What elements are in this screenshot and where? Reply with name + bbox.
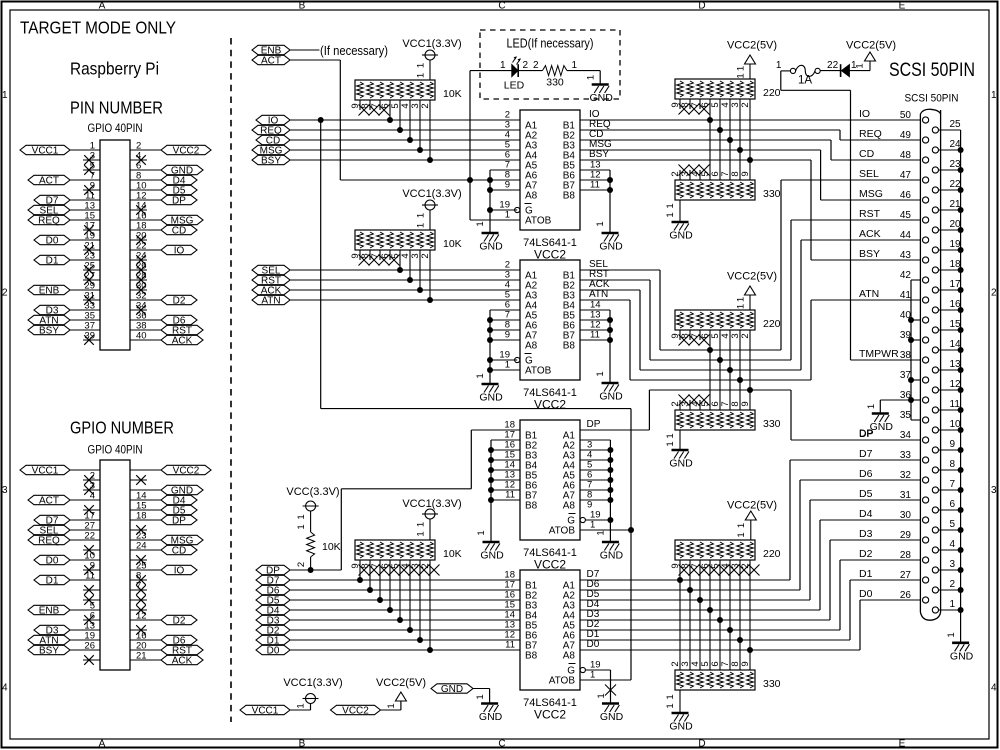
svg-text:9: 9 <box>950 439 956 450</box>
svg-text:IO: IO <box>174 565 185 576</box>
svg-text:1: 1 <box>596 693 607 698</box>
svg-text:1: 1 <box>296 514 307 519</box>
svg-text:1: 1 <box>505 210 510 221</box>
svg-text:BSY: BSY <box>589 149 609 160</box>
svg-text:GND: GND <box>669 721 693 733</box>
svg-text:1: 1 <box>476 530 487 535</box>
svg-text:1: 1 <box>595 371 606 376</box>
svg-text:ACT: ACT <box>39 175 59 186</box>
svg-text:32: 32 <box>900 470 912 481</box>
svg-text:2: 2 <box>740 102 751 107</box>
svg-text:1: 1 <box>416 213 427 218</box>
svg-text:1: 1 <box>416 223 427 228</box>
svg-text:REQ: REQ <box>38 215 60 226</box>
svg-text:9: 9 <box>505 330 510 341</box>
svg-text:PIN NUMBER: PIN NUMBER <box>70 98 163 118</box>
svg-text:LED(If necessary): LED(If necessary) <box>507 36 594 51</box>
svg-text:GPIO NUMBER: GPIO NUMBER <box>70 418 174 438</box>
svg-text:SCSI 50PIN: SCSI 50PIN <box>905 93 959 105</box>
svg-text:1: 1 <box>416 73 427 78</box>
svg-text:VCC2(5V): VCC2(5V) <box>727 500 777 512</box>
svg-text:VCC1: VCC1 <box>32 465 59 476</box>
svg-text:E: E <box>899 1 906 12</box>
svg-text:GPIO 40PIN: GPIO 40PIN <box>88 445 143 457</box>
svg-text:GND: GND <box>600 550 624 562</box>
svg-text:4: 4 <box>991 683 997 694</box>
svg-text:A8: A8 <box>525 191 538 202</box>
svg-text:21: 21 <box>136 651 147 662</box>
svg-text:27: 27 <box>900 570 912 581</box>
svg-text:CD: CD <box>172 225 186 236</box>
svg-text:1: 1 <box>665 212 676 217</box>
svg-text:ACT: ACT <box>39 495 59 506</box>
svg-text:9: 9 <box>740 661 751 666</box>
svg-text:D: D <box>698 1 705 12</box>
svg-text:2: 2 <box>420 103 431 108</box>
svg-text:TARGET MODE ONLY: TARGET MODE ONLY <box>20 18 176 38</box>
svg-text:D0: D0 <box>46 235 59 246</box>
svg-text:GND: GND <box>669 458 693 470</box>
svg-text:5: 5 <box>950 519 956 530</box>
svg-text:ATN: ATN <box>589 289 608 300</box>
svg-text:ATN: ATN <box>261 295 280 306</box>
svg-text:1: 1 <box>500 60 506 71</box>
svg-text:11: 11 <box>505 490 515 501</box>
svg-text:1: 1 <box>416 531 427 536</box>
svg-text:2: 2 <box>296 562 307 567</box>
svg-text:1: 1 <box>475 694 486 699</box>
svg-text:2: 2 <box>533 60 539 71</box>
svg-text:48: 48 <box>900 150 912 161</box>
svg-text:2: 2 <box>950 579 956 590</box>
svg-text:D1: D1 <box>46 575 59 586</box>
svg-text:VCC2: VCC2 <box>534 398 566 412</box>
svg-text:ENB: ENB <box>39 605 60 616</box>
svg-text:D0: D0 <box>267 645 280 656</box>
svg-text:BSY: BSY <box>39 645 59 656</box>
svg-text:1: 1 <box>2 90 8 101</box>
svg-text:1: 1 <box>736 66 747 71</box>
svg-text:220: 220 <box>763 548 781 560</box>
svg-text:11: 11 <box>590 180 600 191</box>
svg-text:40: 40 <box>136 331 147 342</box>
svg-text:GND: GND <box>441 684 463 695</box>
svg-text:1: 1 <box>416 522 427 527</box>
svg-text:6: 6 <box>950 499 956 510</box>
svg-text:220: 220 <box>763 318 781 330</box>
svg-text:D0: D0 <box>46 555 59 566</box>
svg-text:GND: GND <box>669 230 693 242</box>
svg-text:11: 11 <box>590 330 600 341</box>
svg-text:ACT: ACT <box>261 55 281 66</box>
svg-text:GND: GND <box>479 241 503 253</box>
svg-text:GND: GND <box>590 92 614 104</box>
svg-text:DP: DP <box>172 515 186 526</box>
svg-text:4: 4 <box>90 491 95 502</box>
svg-text:D6: D6 <box>859 468 873 480</box>
svg-text:ATOB: ATOB <box>549 676 576 687</box>
svg-text:10K: 10K <box>443 88 462 100</box>
svg-text:D: D <box>698 739 705 750</box>
svg-text:ACK: ACK <box>172 335 193 346</box>
svg-text:VCC1(3.3V): VCC1(3.3V) <box>402 38 461 50</box>
svg-text:2: 2 <box>740 333 751 338</box>
svg-text:28: 28 <box>900 550 912 561</box>
svg-text:IO: IO <box>174 245 185 256</box>
svg-text:BSY: BSY <box>859 248 880 260</box>
svg-text:1: 1 <box>736 304 747 309</box>
svg-text:2: 2 <box>2 288 8 299</box>
svg-text:VCC2: VCC2 <box>342 705 369 716</box>
svg-text:1: 1 <box>866 404 877 409</box>
svg-text:9: 9 <box>740 401 751 406</box>
svg-text:330: 330 <box>763 188 781 200</box>
svg-text:11: 11 <box>505 640 515 651</box>
svg-text:2: 2 <box>420 253 431 258</box>
svg-text:B: B <box>299 739 306 750</box>
svg-text:4: 4 <box>2 683 8 694</box>
svg-text:VCC2: VCC2 <box>534 708 566 722</box>
svg-text:44: 44 <box>900 230 912 241</box>
svg-text:VCC1(3.3V): VCC1(3.3V) <box>283 677 342 689</box>
svg-text:IO: IO <box>859 108 870 120</box>
svg-text:220: 220 <box>763 87 781 99</box>
svg-text:1: 1 <box>665 694 676 699</box>
svg-text:D2: D2 <box>173 295 186 306</box>
svg-text:GND: GND <box>950 650 974 662</box>
svg-text:D1: D1 <box>859 568 873 580</box>
svg-text:(If necessary): (If necessary) <box>320 43 388 58</box>
svg-text:TMPWR: TMPWR <box>859 348 899 360</box>
svg-text:ATOB: ATOB <box>525 366 552 377</box>
svg-text:1: 1 <box>572 60 578 71</box>
svg-text:24: 24 <box>136 541 147 552</box>
svg-text:GND: GND <box>599 241 623 253</box>
svg-text:1: 1 <box>946 632 957 637</box>
svg-text:VCC2(5V): VCC2(5V) <box>727 40 777 52</box>
svg-text:3: 3 <box>991 485 997 496</box>
svg-text:D1: D1 <box>46 255 59 266</box>
svg-text:330: 330 <box>546 77 564 89</box>
svg-text:1: 1 <box>665 703 676 708</box>
svg-text:1: 1 <box>736 297 747 302</box>
svg-text:35: 35 <box>900 410 912 421</box>
svg-text:1: 1 <box>736 523 747 528</box>
svg-text:1: 1 <box>736 73 747 78</box>
svg-text:DP: DP <box>587 419 601 430</box>
svg-text:1: 1 <box>595 530 606 535</box>
svg-text:B8: B8 <box>563 191 576 202</box>
svg-text:3: 3 <box>950 559 956 570</box>
svg-text:ATN: ATN <box>859 288 879 300</box>
svg-text:2: 2 <box>991 288 997 299</box>
svg-text:SCSI 50PIN: SCSI 50PIN <box>889 59 975 81</box>
svg-text:10K: 10K <box>443 238 462 250</box>
svg-text:330: 330 <box>763 418 781 430</box>
svg-text:3: 3 <box>2 485 8 496</box>
svg-text:VCC2: VCC2 <box>173 465 200 476</box>
svg-text:REQ: REQ <box>859 128 882 140</box>
svg-text:30: 30 <box>900 510 912 521</box>
svg-text:DP: DP <box>172 195 186 206</box>
svg-text:50: 50 <box>900 110 912 121</box>
svg-text:VCC2: VCC2 <box>173 145 200 156</box>
svg-text:D5: D5 <box>859 488 873 500</box>
svg-text:49: 49 <box>900 130 912 141</box>
svg-text:GPIO 40PIN: GPIO 40PIN <box>88 123 143 135</box>
svg-text:GND: GND <box>870 421 894 433</box>
svg-text:43: 43 <box>900 250 912 261</box>
svg-text:ATOB: ATOB <box>549 526 576 537</box>
svg-text:9: 9 <box>587 500 592 511</box>
svg-text:7: 7 <box>950 479 956 490</box>
svg-text:1: 1 <box>296 703 307 708</box>
svg-text:2: 2 <box>523 60 529 71</box>
svg-text:29: 29 <box>900 530 912 541</box>
svg-text:GND: GND <box>599 391 623 403</box>
svg-text:GND: GND <box>600 711 624 723</box>
svg-text:D2: D2 <box>173 615 186 626</box>
svg-text:VCC1(3.3V): VCC1(3.3V) <box>402 498 461 510</box>
svg-text:A8: A8 <box>525 341 538 352</box>
svg-text:1: 1 <box>855 63 866 68</box>
svg-text:VCC2(5V): VCC2(5V) <box>727 271 777 283</box>
svg-text:1: 1 <box>595 221 606 226</box>
svg-text:1: 1 <box>736 532 747 537</box>
svg-text:A: A <box>99 1 106 12</box>
svg-text:ENB: ENB <box>39 285 60 296</box>
svg-text:SEL: SEL <box>859 168 879 180</box>
svg-text:1: 1 <box>586 75 597 80</box>
svg-text:CD: CD <box>859 148 875 160</box>
svg-text:CD: CD <box>172 545 186 556</box>
svg-text:MSG: MSG <box>859 188 883 200</box>
svg-text:GND: GND <box>480 550 504 562</box>
svg-text:42: 42 <box>900 270 912 281</box>
svg-text:1: 1 <box>776 60 782 71</box>
svg-text:LED: LED <box>504 80 525 92</box>
svg-text:22: 22 <box>84 531 95 542</box>
svg-text:GND: GND <box>479 392 503 404</box>
svg-text:1: 1 <box>386 703 397 708</box>
svg-text:VCC1: VCC1 <box>252 705 279 716</box>
svg-text:45: 45 <box>900 210 912 221</box>
svg-text:31: 31 <box>900 490 912 501</box>
svg-text:1: 1 <box>991 90 997 101</box>
svg-text:D0: D0 <box>859 588 873 600</box>
svg-text:9: 9 <box>740 171 751 176</box>
svg-text:26: 26 <box>900 590 912 601</box>
svg-text:D2: D2 <box>859 548 873 560</box>
svg-text:1: 1 <box>416 63 427 68</box>
svg-text:1: 1 <box>505 360 510 371</box>
svg-text:C: C <box>498 739 505 750</box>
svg-text:VCC2(5V): VCC2(5V) <box>846 40 896 52</box>
svg-text:A8: A8 <box>563 651 576 662</box>
svg-text:1: 1 <box>590 520 595 531</box>
svg-text:11: 11 <box>85 571 95 582</box>
svg-text:34: 34 <box>900 430 912 441</box>
svg-text:ACK: ACK <box>859 228 881 240</box>
svg-text:18: 18 <box>136 511 147 522</box>
svg-text:Raspberry Pi: Raspberry Pi <box>70 59 159 79</box>
svg-text:38: 38 <box>900 350 912 361</box>
svg-text:12: 12 <box>136 611 147 622</box>
svg-text:330: 330 <box>763 678 781 690</box>
svg-text:VCC1(3.3V): VCC1(3.3V) <box>402 188 461 200</box>
svg-text:GND: GND <box>479 711 503 723</box>
svg-text:D7: D7 <box>859 448 873 460</box>
svg-text:A8: A8 <box>563 501 576 512</box>
svg-text:1: 1 <box>296 524 307 529</box>
svg-text:BSY: BSY <box>39 325 59 336</box>
svg-text:46: 46 <box>900 190 912 201</box>
svg-text:1: 1 <box>665 433 676 438</box>
svg-text:47: 47 <box>900 170 912 181</box>
svg-text:33: 33 <box>900 450 912 461</box>
svg-text:D4: D4 <box>859 508 873 520</box>
svg-text:1: 1 <box>590 670 595 681</box>
svg-text:ATOB: ATOB <box>525 216 552 227</box>
svg-text:ACK: ACK <box>172 655 193 666</box>
svg-text:25: 25 <box>950 119 962 130</box>
svg-text:VCC(3.3V): VCC(3.3V) <box>286 486 339 498</box>
svg-text:B8: B8 <box>525 651 538 662</box>
svg-text:VCC2(5V): VCC2(5V) <box>376 677 426 689</box>
svg-text:1: 1 <box>475 221 486 226</box>
svg-text:C: C <box>498 1 505 12</box>
svg-text:RST: RST <box>859 208 881 220</box>
svg-text:B8: B8 <box>563 341 576 352</box>
svg-text:D0: D0 <box>587 639 600 650</box>
svg-text:9: 9 <box>505 180 510 191</box>
svg-text:22: 22 <box>827 60 839 71</box>
svg-text:8: 8 <box>950 459 956 470</box>
svg-text:1: 1 <box>475 373 486 378</box>
svg-text:VCC1: VCC1 <box>32 145 59 156</box>
svg-text:10K: 10K <box>443 548 462 560</box>
svg-text:REQ: REQ <box>38 535 60 546</box>
svg-text:1: 1 <box>665 441 676 446</box>
svg-text:10K: 10K <box>322 541 341 553</box>
svg-text:BSY: BSY <box>261 155 281 166</box>
svg-text:41: 41 <box>900 290 912 301</box>
svg-text:D3: D3 <box>859 528 873 540</box>
svg-text:A: A <box>99 739 106 750</box>
svg-text:26: 26 <box>84 641 95 652</box>
svg-text:4: 4 <box>950 539 956 550</box>
svg-text:1: 1 <box>665 203 676 208</box>
svg-text:1A: 1A <box>798 75 812 87</box>
svg-text:B: B <box>299 1 306 12</box>
svg-text:B8: B8 <box>525 501 538 512</box>
svg-text:1: 1 <box>950 599 956 610</box>
svg-text:E: E <box>899 739 906 750</box>
